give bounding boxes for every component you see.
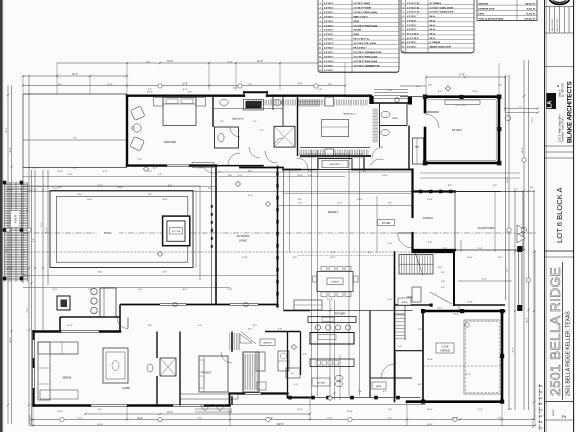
- svg-text:7'-8": 7'-8": [88, 289, 93, 291]
- small dim texts: [53, 85, 503, 413]
- svg-text:17'-8": 17'-8": [459, 73, 465, 76]
- study door arc: [425, 114, 439, 128]
- svg-text:6'-8": 6'-8": [428, 84, 432, 86]
- svg-text:76 SQ. FT.: 76 SQ. FT.: [526, 9, 536, 11]
- svg-text:16'-0": 16'-0": [147, 92, 153, 94]
- svg-text:BAR: BAR: [415, 146, 420, 149]
- svg-text:12'-4": 12'-4": [532, 117, 534, 122]
- svg-text:38'-4": 38'-4": [10, 147, 12, 153]
- svg-text:12'-0"X8'-0" FIXED GLASS: 12'-0"X8'-0" FIXED GLASS: [354, 24, 378, 27]
- svg-text:6'-4": 6'-4": [33, 238, 35, 242]
- svg-text:7'-0": 7'-0": [248, 84, 252, 86]
- svg-text:2'-6"X6'-0": 2'-6"X6'-0": [407, 29, 417, 31]
- study walls: [423, 95, 502, 166]
- svg-text:9'-0": 9'-0": [331, 252, 335, 254]
- svg-text:9'-8": 9'-8": [148, 325, 153, 327]
- stair strip lower: [395, 305, 424, 351]
- svg-text:6'-8": 6'-8": [220, 121, 224, 123]
- svg-text:8'-0": 8'-0": [183, 89, 188, 91]
- svg-text:4'-0": 4'-0": [398, 346, 402, 348]
- svg-text:8'-4": 8'-4": [530, 187, 534, 189]
- svg-text:2'-6"X6'-0": 2'-6"X6'-0": [407, 16, 417, 18]
- svg-text:8'-4": 8'-4": [363, 170, 367, 172]
- svg-text:6'-8": 6'-8": [388, 202, 392, 204]
- svg-text:7'-8": 7'-8": [318, 89, 323, 91]
- svg-text:2501 BELLA RIDGE: 2501 BELLA RIDGE: [548, 267, 563, 396]
- svg-text:HOT TUB: HOT TUB: [172, 231, 181, 233]
- svg-text:11'-8": 11'-8": [477, 409, 483, 411]
- svg-text:5'-0": 5'-0": [308, 175, 313, 177]
- svg-text:16'-4": 16'-4": [481, 279, 486, 281]
- svg-text:11'-4": 11'-4": [107, 84, 112, 86]
- svg-text:18'-2": 18'-2": [330, 257, 336, 259]
- svg-text:14'-4": 14'-4": [347, 411, 353, 413]
- svg-text:5'-2": 5'-2": [253, 121, 257, 123]
- svg-text:5'-8": 5'-8": [298, 202, 302, 204]
- glass summary table: [477, 0, 537, 21]
- svg-text:22'-4": 22'-4": [257, 60, 263, 63]
- svg-text:56'-8": 56'-8": [522, 147, 524, 153]
- svg-text:3'-0"X8'-0": 3'-0"X8'-0": [324, 70, 334, 72]
- svg-text:5'-8": 5'-8": [146, 61, 150, 63]
- lot block label: [545, 158, 574, 257]
- svg-text:6X'' FRENCH: 6X'' FRENCH: [430, 3, 442, 5]
- svg-text:Suite A: Suite A: [559, 89, 562, 97]
- svg-text:POOL: POOL: [104, 231, 113, 235]
- svg-text:12'-0"X8'-0" CASEMENT FXD.: 12'-0"X8'-0" CASEMENT FXD.: [354, 64, 381, 67]
- svg-text:2'-6"X8'-0": 2'-6"X8'-0": [324, 16, 334, 18]
- svg-text:9'-6": 9'-6": [158, 174, 162, 176]
- svg-text:5'-4": 5'-4": [73, 138, 77, 140]
- svg-text:3'-0": 3'-0": [238, 175, 242, 177]
- svg-text:6'-8": 6'-8": [228, 411, 233, 413]
- svg-text:2'-8": 2'-8": [508, 409, 512, 411]
- svg-text:10: 10: [402, 42, 404, 44]
- door schedule table: [318, 0, 399, 73]
- outdoor living south wall: [173, 302, 248, 306]
- powder room: [373, 103, 408, 147]
- svg-text:2'-4"X8'-0": 2'-4"X8'-0": [324, 6, 334, 9]
- svg-text:22'-0": 22'-0": [162, 199, 168, 201]
- svg-text:5'-0": 5'-0": [388, 243, 393, 245]
- svg-text:12'-0"X8'-0" FIXED GLASS: 12'-0"X8'-0" FIXED GLASS: [354, 55, 378, 58]
- svg-text:2501 BELLA RIDGE KELLER, TEXA: 2501 BELLA RIDGE KELLER, TEXAS: [566, 311, 572, 396]
- garage future dashed: [464, 320, 501, 394]
- room labels: [237, 113, 495, 243]
- svg-text:3'-0"X8'-0": 3'-0"X8'-0": [324, 25, 334, 27]
- extra dim texts: [33, 61, 534, 411]
- svg-text:8'-6": 8'-6": [448, 185, 453, 187]
- svg-text:AWNING CASMT. DOOR: AWNING CASMT. DOOR: [430, 46, 452, 49]
- svg-text:448 SQ. FT.: 448 SQ. FT.: [525, 2, 536, 5]
- svg-text:PATIO: PATIO: [479, 13, 485, 16]
- svg-text:2'-6"X8'-0": 2'-6"X8'-0": [324, 61, 334, 63]
- title block job info rows: [545, 7, 574, 34]
- svg-text:2'-6"X8'-0": 2'-6"X8'-0": [324, 48, 334, 50]
- dining: [313, 267, 359, 297]
- svg-text:JOB: 912-956: JOB: 912-956: [552, 18, 554, 31]
- long reference lines mid: [23, 86, 535, 400]
- svg-text:8'-4": 8'-4": [148, 194, 152, 196]
- svg-text:5'-4": 5'-4": [148, 89, 153, 91]
- guest room: [199, 332, 232, 406]
- svg-text:9'-0": 9'-0": [58, 187, 63, 189]
- svg-text:30'-2": 30'-2": [513, 347, 515, 352]
- svg-text:FIXED: FIXED: [354, 21, 360, 23]
- svg-text:40'-0": 40'-0": [527, 317, 529, 323]
- svg-text:2'-0"X6'-0" AC: 2'-0"X6'-0" AC: [407, 11, 420, 14]
- svg-text:4'-6": 4'-6": [438, 91, 443, 93]
- svg-text:2'-8"X8'-0": 2'-8"X8'-0": [324, 52, 334, 54]
- study window inner lines: [428, 100, 538, 161]
- svg-text:MEDIA: MEDIA: [63, 376, 72, 380]
- svg-text:96 SQ. FT.: 96 SQ. FT.: [526, 14, 536, 16]
- svg-text:2'-6"X8'-0" POCKET: 2'-6"X8'-0" POCKET: [354, 7, 373, 9]
- svg-text:OUTDOOR: OUTDOOR: [237, 235, 250, 238]
- svg-text:FAMILY: FAMILY: [328, 210, 338, 214]
- svg-text:11'-0": 11'-0": [52, 188, 57, 190]
- south porch columns: [288, 396, 292, 400]
- svg-text:2: 2: [562, 415, 568, 418]
- svg-text:16'-0": 16'-0": [467, 257, 473, 259]
- svg-text:2765 SQ. FT.: 2765 SQ. FT.: [524, 19, 536, 21]
- svg-text:5: 5: [320, 21, 321, 23]
- svg-text:PAIR 1'-6"X8'-0": PAIR 1'-6"X8'-0": [354, 15, 368, 18]
- game room pool table: [103, 348, 238, 399]
- svg-text:6'-2": 6'-2": [388, 418, 393, 420]
- svg-text:SH GL.: SH GL.: [430, 29, 437, 31]
- svg-text:2'-0": 2'-0": [518, 106, 522, 108]
- svg-text:WINE: WINE: [402, 302, 408, 304]
- blake architects block: [545, 81, 574, 152]
- svg-text:4'-0": 4'-0": [388, 299, 393, 301]
- svg-text:WET BAR: WET BAR: [317, 382, 325, 385]
- svg-text:15'-4": 15'-4": [227, 61, 233, 63]
- svg-text:UTILITY: UTILITY: [213, 226, 215, 233]
- svg-text:32'-4": 32'-4": [137, 418, 143, 420]
- svg-text:11: 11: [402, 47, 404, 49]
- svg-text:LA: LA: [548, 100, 554, 109]
- svg-text:2'-8"X8'-0": 2'-8"X8'-0": [324, 56, 334, 58]
- south wing perimeter walls: [34, 331, 426, 407]
- svg-text:12'-6": 12'-6": [297, 409, 303, 411]
- title block frame: [545, 0, 574, 432]
- svg-text:11'-8": 11'-8": [327, 299, 333, 301]
- dimension lines top: [23, 60, 505, 112]
- svg-text:5: 5: [403, 20, 404, 22]
- svg-text:2: 2: [403, 7, 404, 9]
- svg-text:KITCHEN: KITCHEN: [335, 313, 346, 316]
- pool deck edges: [23, 168, 216, 284]
- svg-text:STUDY: STUDY: [452, 128, 462, 132]
- svg-text:16'-0"X8'-0" OVERHEAD DOOR: 16'-0"X8'-0" OVERHEAD DOOR: [354, 51, 383, 54]
- svg-text:6'-8": 6'-8": [228, 175, 233, 177]
- svg-text:18'-0": 18'-0": [72, 73, 78, 76]
- south steps: [195, 405, 232, 412]
- svg-text:11: 11: [319, 48, 321, 50]
- svg-text:5'-4": 5'-4": [493, 185, 498, 187]
- svg-text:12'-4": 12'-4": [67, 325, 73, 327]
- svg-text:817-488-9397: 817-488-9397: [563, 82, 565, 97]
- match line dashed: [539, 384, 541, 430]
- svg-text:6'-4": 6'-4": [248, 329, 252, 331]
- svg-text:PWDR: PWDR: [392, 118, 399, 120]
- svg-text:15'-8": 15'-8": [182, 83, 188, 86]
- svg-text:5'-0": 5'-0": [294, 384, 298, 386]
- svg-text:3'-0"X6'-0": 3'-0"X6'-0": [407, 42, 417, 44]
- architect seal: [549, 0, 570, 5]
- svg-text:6: 6: [320, 25, 321, 27]
- svg-text:3'-0": 3'-0": [388, 90, 393, 92]
- svg-text:10'-0": 10'-0": [337, 202, 342, 204]
- svg-text:3'-0": 3'-0": [260, 130, 264, 132]
- svg-text:8: 8: [403, 33, 404, 35]
- svg-text:5'-8": 5'-8": [248, 170, 252, 172]
- svg-text:LOT 6 BLOCK A: LOT 6 BLOCK A: [555, 186, 564, 243]
- dimension lines bottom: [30, 250, 535, 426]
- media west windows: [32, 340, 35, 388]
- svg-text:60'-0": 60'-0": [427, 424, 433, 426]
- svg-text:8'-4": 8'-4": [416, 86, 421, 88]
- svg-text:LAUNDRY: LAUNDRY: [263, 342, 273, 345]
- svg-text:8'-0": 8'-0": [253, 325, 258, 327]
- svg-text:15: 15: [319, 65, 321, 67]
- svg-text:11'-2": 11'-2": [77, 418, 83, 420]
- svg-text:3'-6": 3'-6": [298, 199, 303, 201]
- svg-text:ARBOR: ARBOR: [15, 214, 18, 223]
- window schedule table: [401, 0, 474, 53]
- svg-text:2'-0"X6'-0" SLDNG. DOOR: 2'-0"X6'-0" SLDNG. DOOR: [430, 7, 454, 9]
- svg-text:EXTERIOR DOOR: EXTERIOR DOOR: [479, 9, 495, 11]
- media room furniture: [38, 318, 128, 401]
- svg-text:18'-4": 18'-4": [167, 412, 173, 414]
- svg-text:PORCH: PORCH: [423, 216, 433, 220]
- svg-text:2'-0"X6'-0": 2'-0"X6'-0": [407, 20, 417, 22]
- svg-text:GUEST: GUEST: [203, 371, 212, 375]
- svg-text:2: 2: [320, 7, 321, 9]
- dimension lines right: [506, 60, 535, 420]
- garage label: [423, 323, 502, 376]
- svg-text:4" TRNSOM: 4" TRNSOM: [430, 41, 441, 44]
- svg-text:44'-2": 44'-2": [10, 337, 12, 343]
- dimension lines left: [6, 75, 77, 425]
- svg-text:9: 9: [320, 39, 321, 41]
- svg-text:9: 9: [403, 38, 404, 40]
- svg-text:7: 7: [320, 30, 321, 32]
- svg-text:3'-4": 3'-4": [441, 272, 445, 274]
- svg-text:6'-0": 6'-0": [308, 170, 312, 172]
- bar room: [372, 126, 424, 170]
- svg-text:10'-0": 10'-0": [57, 411, 63, 413]
- svg-text:GARAGE: GARAGE: [440, 350, 450, 353]
- svg-text:2 CAR: 2 CAR: [442, 346, 449, 349]
- svg-text:11'-4": 11'-4": [477, 248, 482, 250]
- svg-text:4'-8": 4'-8": [328, 84, 332, 86]
- svg-text:3'-0": 3'-0": [103, 171, 108, 173]
- svg-text:102'-6": 102'-6": [276, 424, 283, 426]
- svg-text:4'-0": 4'-0": [53, 289, 58, 291]
- svg-text:8'-0": 8'-0": [168, 185, 172, 187]
- svg-text:3'-4": 3'-4": [208, 188, 212, 190]
- svg-text:10: 10: [319, 43, 321, 45]
- svg-text:12'-0"X8'-0" FIXED GLASS: 12'-0"X8'-0" FIXED GLASS: [354, 60, 378, 63]
- svg-text:MASTER B.: MASTER B.: [232, 118, 244, 121]
- svg-text:12'-0": 12'-0": [67, 174, 72, 176]
- svg-text:DINING: DINING: [331, 282, 339, 284]
- gallery south wall + fireplace: [216, 153, 413, 169]
- svg-text:9'-4": 9'-4": [298, 83, 303, 86]
- svg-text:4'-0": 4'-0": [138, 289, 143, 291]
- svg-text:PR 2'-8"X8'-0": PR 2'-8"X8'-0": [354, 48, 367, 50]
- svg-text:6'-8": 6'-8": [163, 272, 167, 274]
- svg-text:SH GL.: SH GL.: [430, 33, 437, 35]
- svg-text:9'-6": 9'-6": [507, 268, 509, 272]
- svg-text:17'-8" x 13'-2": 17'-8" x 13'-2": [455, 105, 466, 107]
- left scan edge: [0, 0, 2, 432]
- svg-text:10'-4": 10'-4": [242, 257, 248, 259]
- svg-text:14'-0": 14'-0": [357, 199, 363, 201]
- svg-text:PR 2'-6"X8'-0" GL.: PR 2'-6"X8'-0" GL.: [354, 39, 371, 41]
- svg-text:7: 7: [403, 29, 404, 31]
- svg-text:5'-4": 5'-4": [388, 409, 392, 411]
- stairs: [399, 253, 512, 305]
- svg-text:3'-4": 3'-4": [498, 257, 503, 259]
- svg-text:2'-0"X6'-0" AC: 2'-0"X6'-0" AC: [407, 6, 420, 9]
- svg-text:M. 2'-0"X8'-0": M. 2'-0"X8'-0": [407, 38, 419, 40]
- svg-text:PANT.: PANT.: [376, 385, 382, 388]
- svg-text:3'-0"X8'-0": 3'-0"X8'-0": [324, 39, 334, 41]
- svg-text:1: 1: [403, 3, 404, 5]
- svg-text:23'-4": 23'-4": [465, 374, 471, 376]
- svg-text:MASTER: MASTER: [164, 140, 176, 144]
- svg-text:1: 1: [320, 3, 321, 5]
- svg-text:6: 6: [403, 25, 404, 27]
- svg-text:3'-8": 3'-8": [278, 329, 282, 331]
- stair hall north wall: [395, 252, 455, 402]
- svg-text:3'-0"X6'-0": 3'-0"X6'-0": [407, 25, 417, 27]
- pantry + wine: [370, 298, 412, 398]
- kitchen: [284, 300, 413, 387]
- master suite walls: [127, 92, 412, 167]
- svg-text:3: 3: [320, 12, 321, 14]
- svg-text:4'-8": 4'-8": [198, 168, 202, 170]
- bath partitions: [220, 97, 283, 133]
- svg-text:24'-8": 24'-8": [117, 187, 123, 189]
- svg-text:2'-8": 2'-8": [441, 281, 445, 283]
- svg-text:10'-0": 10'-0": [382, 175, 388, 177]
- svg-text:6'-0": 6'-0": [233, 88, 238, 90]
- hall closet ticks: [230, 333, 253, 350]
- svg-text:6'-0": 6'-0": [153, 168, 157, 170]
- svg-text:2'-8"X8'-0": 2'-8"X8'-0": [324, 65, 334, 67]
- svg-text:SH GL.: SH GL.: [430, 38, 437, 40]
- svg-text:14'-0": 14'-0": [46, 227, 48, 232]
- svg-text:3'-0": 3'-0": [498, 84, 502, 86]
- linen shelves: [298, 100, 320, 106]
- svg-text:4'-0": 4'-0": [248, 195, 253, 197]
- svg-text:16: 16: [319, 70, 321, 72]
- gallery doors: [23, 86, 527, 401]
- master bed: [143, 98, 205, 172]
- svg-text:Southlake, Texas 76092: Southlake, Texas 76092: [562, 117, 565, 142]
- svg-text:13'-4": 13'-4": [97, 185, 103, 187]
- svg-text:3'-0"X8'-0" CASED: 3'-0"X8'-0" CASED: [354, 2, 371, 5]
- garage walls: [407, 311, 504, 402]
- svg-text:13: 13: [319, 56, 321, 58]
- hot tub: [163, 216, 190, 246]
- title block blank box: [545, 66, 574, 68]
- svg-text:WINDOWS: WINDOWS: [479, 3, 489, 5]
- svg-text:2'-8"X8'-0": 2'-8"X8'-0": [324, 3, 334, 5]
- svg-text:21'-8": 21'-8": [453, 314, 459, 316]
- svg-text:12'-8": 12'-8": [427, 199, 433, 201]
- svg-text:2'-8": 2'-8": [293, 257, 298, 259]
- svg-text:3'-0": 3'-0": [228, 289, 233, 291]
- svg-text:5'-4": 5'-4": [148, 171, 153, 173]
- mud room: [395, 287, 505, 307]
- arbor trellis: [3, 181, 28, 282]
- svg-text:12: 12: [402, 51, 404, 53]
- window tags: [6, 84, 531, 422]
- svg-text:9'-2": 9'-2": [188, 92, 193, 94]
- svg-text:3'-2": 3'-2": [383, 391, 387, 393]
- svg-text:15'-8": 15'-8": [27, 307, 29, 312]
- svg-text:FOYER: FOYER: [382, 222, 391, 225]
- dim tick slashes: [7, 62, 539, 427]
- svg-text:2'-8"X8'-0": 2'-8"X8'-0": [324, 21, 334, 23]
- svg-text:SH GL.: SH GL.: [430, 20, 437, 22]
- svg-text:3'-0": 3'-0": [514, 189, 518, 191]
- courtyard east colonnade: [517, 246, 522, 311]
- courtyard gate arrows: [517, 225, 525, 235]
- master window seat: [192, 163, 214, 168]
- garage piers: [421, 309, 425, 313]
- family west window wall: [276, 166, 283, 311]
- svg-text:FIXED: FIXED: [354, 34, 360, 36]
- master chairs: [130, 106, 145, 151]
- svg-text:34'-8": 34'-8": [167, 60, 173, 63]
- svg-text:3: 3: [403, 12, 404, 14]
- pool: [23, 191, 536, 274]
- svg-text:16'-8": 16'-8": [437, 267, 442, 269]
- svg-text:23'-4": 23'-4": [427, 359, 433, 361]
- binding tick marks: [539, 386, 543, 428]
- project title: [545, 262, 574, 420]
- svg-text:2'-8"X8'-0": 2'-8"X8'-0": [324, 30, 334, 32]
- svg-text:8: 8: [320, 34, 321, 36]
- svg-text:2'-8"X8'-0" FRSTD GLASS: 2'-8"X8'-0" FRSTD GLASS: [354, 11, 378, 14]
- svg-text:4'-0": 4'-0": [418, 384, 423, 386]
- entry walk: [345, 90, 425, 103]
- svg-text:7'-4": 7'-4": [138, 159, 143, 161]
- svg-text:2'-8"X8'-0": 2'-8"X8'-0": [324, 12, 334, 14]
- family room east wall + front door: [398, 170, 413, 251]
- svg-text:20'-0": 20'-0": [427, 409, 433, 411]
- svg-text:MASTER CL.: MASTER CL.: [343, 113, 357, 116]
- laundry: [241, 332, 301, 394]
- svg-text:3'-4": 3'-4": [441, 287, 445, 289]
- svg-text:POCKET: POCKET: [354, 30, 363, 32]
- svg-text:GAME: GAME: [122, 386, 130, 390]
- svg-text:SH GL.: SH GL.: [430, 16, 437, 18]
- svg-text:6'-0": 6'-0": [58, 84, 62, 86]
- svg-text:10'-8": 10'-8": [57, 171, 63, 173]
- svg-text:7'-4": 7'-4": [358, 391, 362, 393]
- west patio edges: [23, 94, 127, 168]
- svg-text:2'-6"X8'-0": 2'-6"X8'-0": [407, 47, 417, 49]
- svg-text:10'-4": 10'-4": [327, 418, 333, 420]
- svg-text:10'-8": 10'-8": [467, 302, 473, 304]
